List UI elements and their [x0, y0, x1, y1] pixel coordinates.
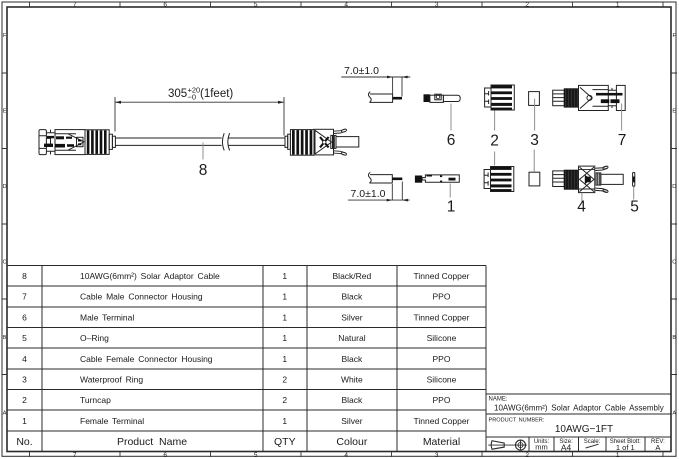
dimension 305 +20/-0 (1feet) — [115, 97, 284, 136]
svg-text:8: 8 — [22, 271, 27, 281]
male connector collar + nose — [331, 135, 359, 148]
o-ring item 5 — [633, 172, 635, 186]
svg-text:PPO: PPO — [433, 395, 451, 405]
svg-text:10AWG−1FT: 10AWG−1FT — [555, 424, 613, 435]
female connector turncap ribs — [85, 130, 109, 155]
svg-text:10AWG(6mm²) Solar Adaptor Cabl: 10AWG(6mm²) Solar Adaptor Cable — [80, 271, 220, 281]
waterproof ring item 3 (top) — [529, 92, 540, 106]
svg-text:QTY: QTY — [274, 436, 296, 448]
svg-text:Turncap: Turncap — [80, 395, 111, 405]
svg-text:B: B — [3, 335, 7, 341]
svg-text:mm: mm — [535, 443, 548, 452]
svg-text:6: 6 — [163, 2, 167, 9]
svg-text:2: 2 — [282, 395, 287, 405]
svg-text:10AWG(6mm²) Solar Adaptor Cabl: 10AWG(6mm²) Solar Adaptor Cable Assembly — [494, 403, 664, 412]
leader + label 1 — [449, 184, 451, 198]
svg-text:Male Terminal: Male Terminal — [80, 312, 134, 322]
svg-text:Tinned Copper: Tinned Copper — [414, 271, 470, 281]
svg-text:B: B — [672, 335, 676, 341]
leader + label 6 — [450, 104, 452, 131]
svg-text:2: 2 — [490, 132, 499, 149]
svg-text:7: 7 — [22, 292, 27, 302]
svg-text:A: A — [655, 443, 660, 452]
svg-text:Silicone: Silicone — [427, 375, 457, 385]
svg-text:1 of 1: 1 of 1 — [616, 443, 635, 452]
svg-text:4: 4 — [577, 199, 586, 216]
cable male connector housing item 7 — [553, 85, 626, 110]
male connector top clip — [334, 129, 347, 134]
svg-text:4: 4 — [344, 452, 348, 459]
svg-text:Black: Black — [342, 292, 364, 302]
svg-text:1: 1 — [616, 2, 620, 9]
svg-text:7.0±1.0: 7.0±1.0 — [344, 65, 379, 77]
third-angle projection symbol — [488, 440, 527, 451]
svg-text:Black/Red: Black/Red — [333, 271, 372, 281]
svg-text:5: 5 — [630, 199, 639, 216]
svg-text:Silicone: Silicone — [427, 333, 457, 343]
svg-text:1: 1 — [22, 416, 27, 426]
svg-text:Cable Male Connector Housing: Cable Male Connector Housing — [80, 292, 203, 302]
svg-text:Tinned Copper: Tinned Copper — [414, 416, 470, 426]
svg-text:1: 1 — [282, 354, 287, 364]
svg-text:Female Terminal: Female Terminal — [80, 416, 144, 426]
svg-text:Material: Material — [423, 436, 460, 448]
cable female connector housing item 4 — [553, 166, 624, 193]
cable break symbol — [222, 133, 229, 150]
cable assembly : male connector (right end) — [285, 130, 314, 156]
svg-text:1: 1 — [447, 199, 456, 216]
svg-text:3: 3 — [22, 375, 27, 385]
svg-text:2: 2 — [22, 395, 27, 405]
svg-text:6: 6 — [447, 132, 456, 149]
svg-text:PPO: PPO — [433, 292, 451, 302]
waterproof ring item 3 (bottom) — [529, 172, 540, 186]
svg-text:A: A — [672, 411, 676, 417]
svg-text:5: 5 — [254, 2, 258, 9]
svg-text:No.: No. — [16, 436, 32, 448]
svg-text:Natural: Natural — [338, 333, 366, 343]
svg-text:White: White — [341, 375, 363, 385]
svg-text:A4: A4 — [561, 443, 572, 453]
svg-text:Silver: Silver — [341, 312, 362, 322]
svg-text:2: 2 — [525, 2, 529, 9]
svg-text:A: A — [3, 411, 7, 417]
svg-text:7: 7 — [73, 452, 77, 459]
dimension 7.0±1.0 (bottom) — [348, 182, 410, 201]
cable item 8 — [115, 138, 285, 145]
svg-text:1: 1 — [282, 333, 287, 343]
svg-text:6: 6 — [163, 452, 167, 459]
svg-text:2: 2 — [282, 375, 287, 385]
svg-text:2: 2 — [525, 452, 529, 459]
svg-text:4: 4 — [22, 354, 27, 364]
svg-text:1: 1 — [282, 292, 287, 302]
svg-text:−0: −0 — [188, 93, 197, 102]
svg-text:Tinned Copper: Tinned Copper — [414, 312, 470, 322]
female connector internal contacts (dark) — [44, 136, 81, 148]
svg-text:C: C — [3, 260, 7, 266]
svg-text:Silver: Silver — [341, 416, 362, 426]
svg-text:1: 1 — [282, 416, 287, 426]
svg-text:NAME:: NAME: — [489, 397, 508, 403]
svg-text:7.0±1.0: 7.0±1.0 — [351, 188, 386, 200]
svg-text:3: 3 — [435, 2, 439, 9]
svg-text:7: 7 — [618, 132, 627, 149]
top row: stripped cable for item 6 — [368, 92, 392, 103]
leader + label 8 — [199, 143, 208, 180]
svg-text:Colour: Colour — [336, 436, 367, 448]
svg-text:305: 305 — [168, 88, 187, 100]
svg-text:Black: Black — [342, 354, 364, 364]
leader + label 4 — [581, 193, 583, 202]
svg-text:1: 1 — [282, 271, 287, 281]
svg-text:1: 1 — [616, 452, 620, 459]
bottom row: stripped cable for item 1 — [368, 172, 392, 183]
female terminal item 1 — [415, 175, 459, 183]
dimension 7.0±1.0 (top) — [341, 77, 410, 97]
svg-text:Product Name: Product Name — [117, 436, 187, 448]
leader + label 5 — [633, 187, 635, 200]
svg-text:1: 1 — [282, 312, 287, 322]
leaders + label 3 — [533, 99, 535, 172]
title block — [486, 394, 671, 452]
male connector body — [314, 129, 334, 155]
male terminal item 6 — [424, 94, 461, 102]
svg-text:D: D — [3, 184, 7, 190]
svg-text:5: 5 — [22, 333, 27, 343]
turncap item 2 (top) — [485, 85, 515, 110]
leader + label 7 — [621, 104, 623, 131]
scale slash — [586, 444, 599, 448]
cable assembly item 8 : female connector (left end) — [39, 130, 85, 155]
svg-text:8: 8 — [199, 162, 208, 179]
svg-text:(1feet): (1feet) — [200, 88, 233, 100]
svg-text:4: 4 — [344, 2, 348, 9]
svg-text:C: C — [672, 260, 676, 266]
svg-text:E: E — [672, 109, 676, 115]
svg-text:3: 3 — [530, 132, 539, 149]
svg-text:Cable Female Connector Housing: Cable Female Connector Housing — [80, 354, 213, 364]
svg-text:PRODUCT NUMBER:: PRODUCT NUMBER: — [489, 417, 545, 423]
svg-text:D: D — [672, 184, 676, 190]
svg-text:PPO: PPO — [433, 354, 451, 364]
svg-text:5: 5 — [254, 452, 258, 459]
turncap item 2 (bottom) — [484, 167, 514, 192]
svg-text:Waterproof Ring: Waterproof Ring — [80, 375, 143, 385]
leaders + label 2 — [494, 111, 496, 166]
svg-text:7: 7 — [73, 2, 77, 9]
male connector internal dark cross — [320, 137, 329, 147]
female connector cable gland — [109, 134, 115, 149]
male connector bottom clip — [334, 151, 347, 156]
svg-text:Black: Black — [342, 395, 364, 405]
svg-text:O–Ring: O–Ring — [80, 333, 109, 343]
svg-text:3: 3 — [435, 452, 439, 459]
BOM table — [7, 265, 486, 451]
svg-text:6: 6 — [22, 312, 27, 322]
svg-text:E: E — [3, 109, 7, 115]
